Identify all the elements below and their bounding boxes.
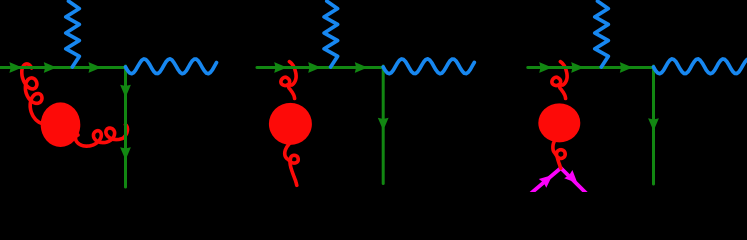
diagram 3: Z boson zigzag [595, 1, 609, 67]
diagram 2: gluon tail below blob [285, 143, 299, 186]
diagram 3: incoming quark line [528, 66, 654, 69]
diagram 1: gluon coil from blob to vertical quark line [76, 125, 128, 147]
diagram 1: quark arrow 1 [9, 62, 22, 73]
diagram 1: outgoing quark line (vertical) [124, 66, 127, 187]
diagram 1: incoming quark line [0, 66, 126, 69]
diagram 3: vertical arrow [648, 118, 659, 131]
diagram 1: vertical arrow 1 [120, 85, 131, 98]
diagram 2: quark arrow 2 [308, 62, 321, 73]
diagram 1: condensate blob [41, 102, 81, 147]
diagram 1: gluon coil from quark line to blob [22, 64, 50, 124]
diagram 2: incoming quark line [257, 66, 383, 69]
diagram 1: Z boson zigzag [66, 1, 80, 67]
diagram 3: antiquark arrow (points toward vertex) [539, 175, 553, 188]
diagram 3: outgoing quark line (lower right) [561, 168, 586, 193]
diagram 3: outgoing antiquark line (lower left) [532, 168, 561, 193]
diagram 1: quark arrow 2 [44, 62, 57, 73]
diagram 2: Z boson zigzag [324, 1, 338, 67]
diagram 2: vertical arrow [378, 118, 389, 131]
diagram 3: quark arrow 1 [539, 62, 552, 73]
diagram 3: outgoing quark line (vertical) [652, 66, 655, 184]
diagram 2: quark arrow 3 [355, 62, 368, 73]
diagram 3: gluon coil from quark line down to blob [552, 62, 567, 99]
diagram 1: photon wavy line [126, 59, 217, 74]
diagram 2: photon wavy line [383, 59, 474, 74]
diagram 1: vertical arrow 2 [120, 147, 131, 160]
diagram 3: gluon from blob to quark-antiquark vertex [553, 141, 565, 169]
diagram 3: quark arrow 2 [571, 62, 584, 73]
diagram 1: quark arrow 3 [89, 62, 102, 73]
diagram 3: condensate blob [538, 103, 580, 142]
diagram 3: quark arrow (points away from vertex) [564, 170, 577, 183]
diagram 2: quark arrow 1 [274, 62, 287, 73]
diagram 3: photon wavy line [654, 59, 747, 74]
diagram 2: outgoing quark line (vertical) [382, 66, 385, 184]
diagram 3: quark arrow 3 [620, 62, 633, 73]
diagram 2: condensate blob [269, 103, 312, 145]
diagram 2: gluon coil from quark line down to blob [281, 62, 296, 99]
